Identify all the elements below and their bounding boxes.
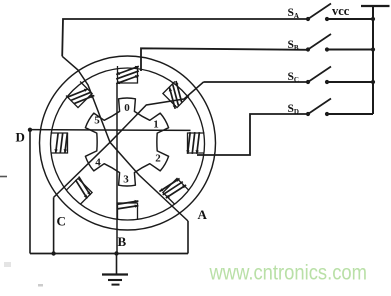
svg-text:B: B bbox=[118, 234, 127, 249]
junction dot D bbox=[28, 128, 32, 132]
stator pole bottom bbox=[118, 203, 138, 220]
svg-text:A: A bbox=[198, 207, 208, 222]
winding coil on upper-left pole bbox=[74, 96, 94, 104]
stator pole lower-left bbox=[66, 178, 92, 204]
rotor tooth numbers 0-5 bbox=[94, 102, 161, 186]
VCC bus vertical bbox=[372, 6, 374, 114]
svg-text:C: C bbox=[57, 214, 66, 229]
junction dot bus row A bbox=[371, 17, 375, 21]
winding coil on lower-right pole bbox=[159, 179, 179, 192]
stator inner circle bbox=[51, 68, 205, 220]
wire phase D to switch SD bbox=[197, 114, 307, 155]
wire phase B to switch SB bbox=[141, 48, 308, 71]
stator pole top bbox=[118, 66, 138, 83]
junction dot bus row C bbox=[371, 80, 375, 84]
wire phase C to switch SC bbox=[204, 81, 308, 83]
switch SD bbox=[306, 112, 310, 116]
phase A axis wire (135-315 diagonal) bbox=[62, 56, 188, 221]
stator pole left bbox=[51, 133, 68, 153]
scan speck lower mid bbox=[38, 284, 43, 287]
phase C axis wire (45-225 diagonal) bbox=[54, 82, 204, 197]
svg-text:3: 3 bbox=[123, 174, 129, 186]
wire C return (lower-left vertical) bbox=[53, 197, 55, 253]
svg-text:vcc: vcc bbox=[332, 4, 350, 18]
phase B axis wire (vertical) bbox=[116, 83, 118, 254]
junction dot C on rail bbox=[51, 251, 55, 255]
switch SC bbox=[306, 80, 310, 84]
winding coil on top pole bbox=[116, 76, 139, 84]
phase D axis wire (horizontal) bbox=[30, 129, 191, 132]
svg-text:1: 1 bbox=[153, 119, 159, 131]
stator pole lower-right bbox=[163, 178, 189, 204]
svg-text:www.cntronics.com: www.cntronics.com bbox=[209, 261, 367, 285]
junction dot B on rail bbox=[114, 251, 118, 255]
winding coil on bottom pole bbox=[117, 201, 139, 204]
wire A return (lower-right vertical) bbox=[187, 221, 189, 254]
ground lead bbox=[116, 254, 118, 275]
stator pole upper-right bbox=[163, 82, 189, 108]
ground symbol bbox=[102, 273, 128, 275]
winding coil on right pole bbox=[188, 132, 191, 154]
svg-text:0: 0 bbox=[124, 102, 130, 114]
stator outer circle bbox=[40, 56, 216, 230]
svg-text:2: 2 bbox=[155, 153, 161, 165]
switch SA bbox=[306, 17, 310, 21]
scan speck bottom left bbox=[4, 262, 11, 267]
wire phase A to switch SA bbox=[62, 19, 308, 56]
VCC rail top bar bbox=[361, 5, 390, 7]
wire D return (left vertical) bbox=[29, 130, 31, 254]
winding coil on lower-left pole bbox=[79, 177, 91, 196]
switch SB bbox=[306, 47, 310, 51]
svg-text:4: 4 bbox=[95, 157, 101, 169]
junction dot bus row B bbox=[371, 47, 375, 51]
stator pole right bbox=[188, 133, 205, 153]
winding coil on upper-right pole bbox=[170, 88, 176, 109]
winding coil on left pole bbox=[65, 133, 67, 153]
common ground rail bbox=[30, 253, 188, 255]
stator pole upper-left bbox=[66, 82, 92, 108]
rotor (6 teeth) bbox=[85, 98, 168, 186]
scan speck left edge bbox=[0, 176, 7, 178]
svg-text:D: D bbox=[16, 130, 25, 145]
